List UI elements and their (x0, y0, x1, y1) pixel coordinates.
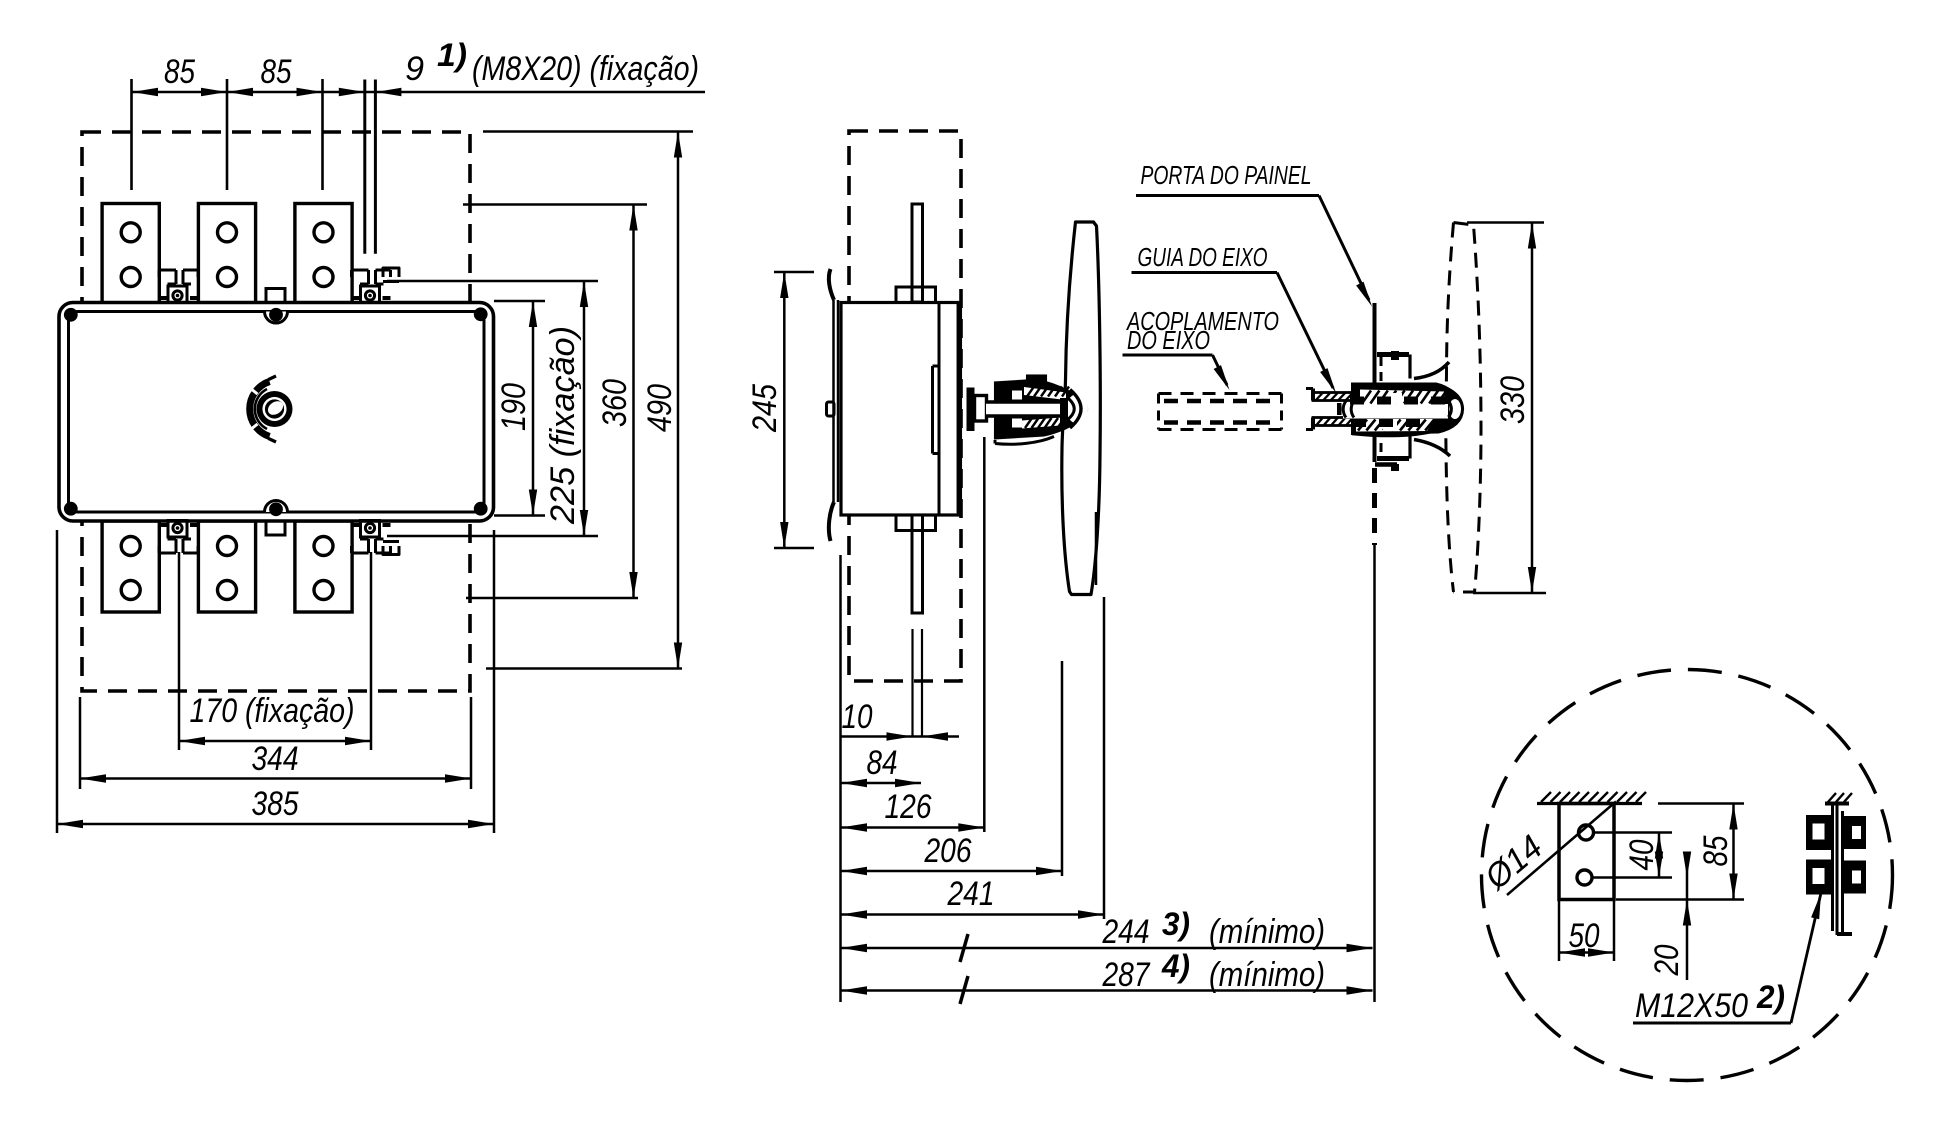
svg-text:241: 241 (947, 875, 995, 913)
svg-text:170 (fixação): 170 (fixação) (190, 692, 355, 730)
svg-text:344: 344 (252, 740, 299, 778)
svg-text:360: 360 (596, 379, 634, 427)
svg-text:9: 9 (405, 50, 424, 88)
svg-text:50: 50 (1569, 917, 1600, 955)
svg-text:84: 84 (867, 744, 898, 782)
svg-text:DO EIXO: DO EIXO (1127, 325, 1210, 355)
svg-text:126: 126 (885, 788, 932, 826)
svg-text:85: 85 (164, 53, 195, 91)
svg-text:2): 2) (1756, 979, 1785, 1015)
svg-text:(M8X20) (fixação): (M8X20) (fixação) (472, 50, 699, 88)
svg-text:206: 206 (924, 832, 972, 870)
svg-text:287: 287 (1102, 956, 1151, 994)
svg-text:244: 244 (1102, 913, 1150, 951)
svg-text:10: 10 (842, 698, 873, 736)
svg-text:225 (fixação): 225 (fixação) (544, 326, 582, 525)
svg-text:(mínimo): (mínimo) (1209, 956, 1325, 994)
svg-text:40: 40 (1623, 839, 1661, 870)
svg-text:(mínimo): (mínimo) (1209, 913, 1325, 951)
svg-text:GUIA DO EIXO: GUIA DO EIXO (1138, 242, 1268, 272)
svg-text:330: 330 (1494, 376, 1532, 424)
svg-text:PORTA DO PAINEL: PORTA DO PAINEL (1141, 160, 1312, 190)
svg-text:4): 4) (1161, 948, 1190, 984)
svg-text:490: 490 (641, 384, 679, 432)
svg-text:3): 3) (1162, 906, 1190, 942)
svg-text:190: 190 (495, 383, 533, 431)
svg-text:85: 85 (261, 53, 292, 91)
svg-text:245: 245 (746, 384, 784, 433)
svg-text:1): 1) (437, 37, 467, 73)
svg-text:85: 85 (1697, 835, 1735, 866)
svg-text:385: 385 (252, 785, 299, 823)
svg-text:M12X50: M12X50 (1635, 987, 1748, 1025)
svg-text:20: 20 (1648, 944, 1686, 976)
